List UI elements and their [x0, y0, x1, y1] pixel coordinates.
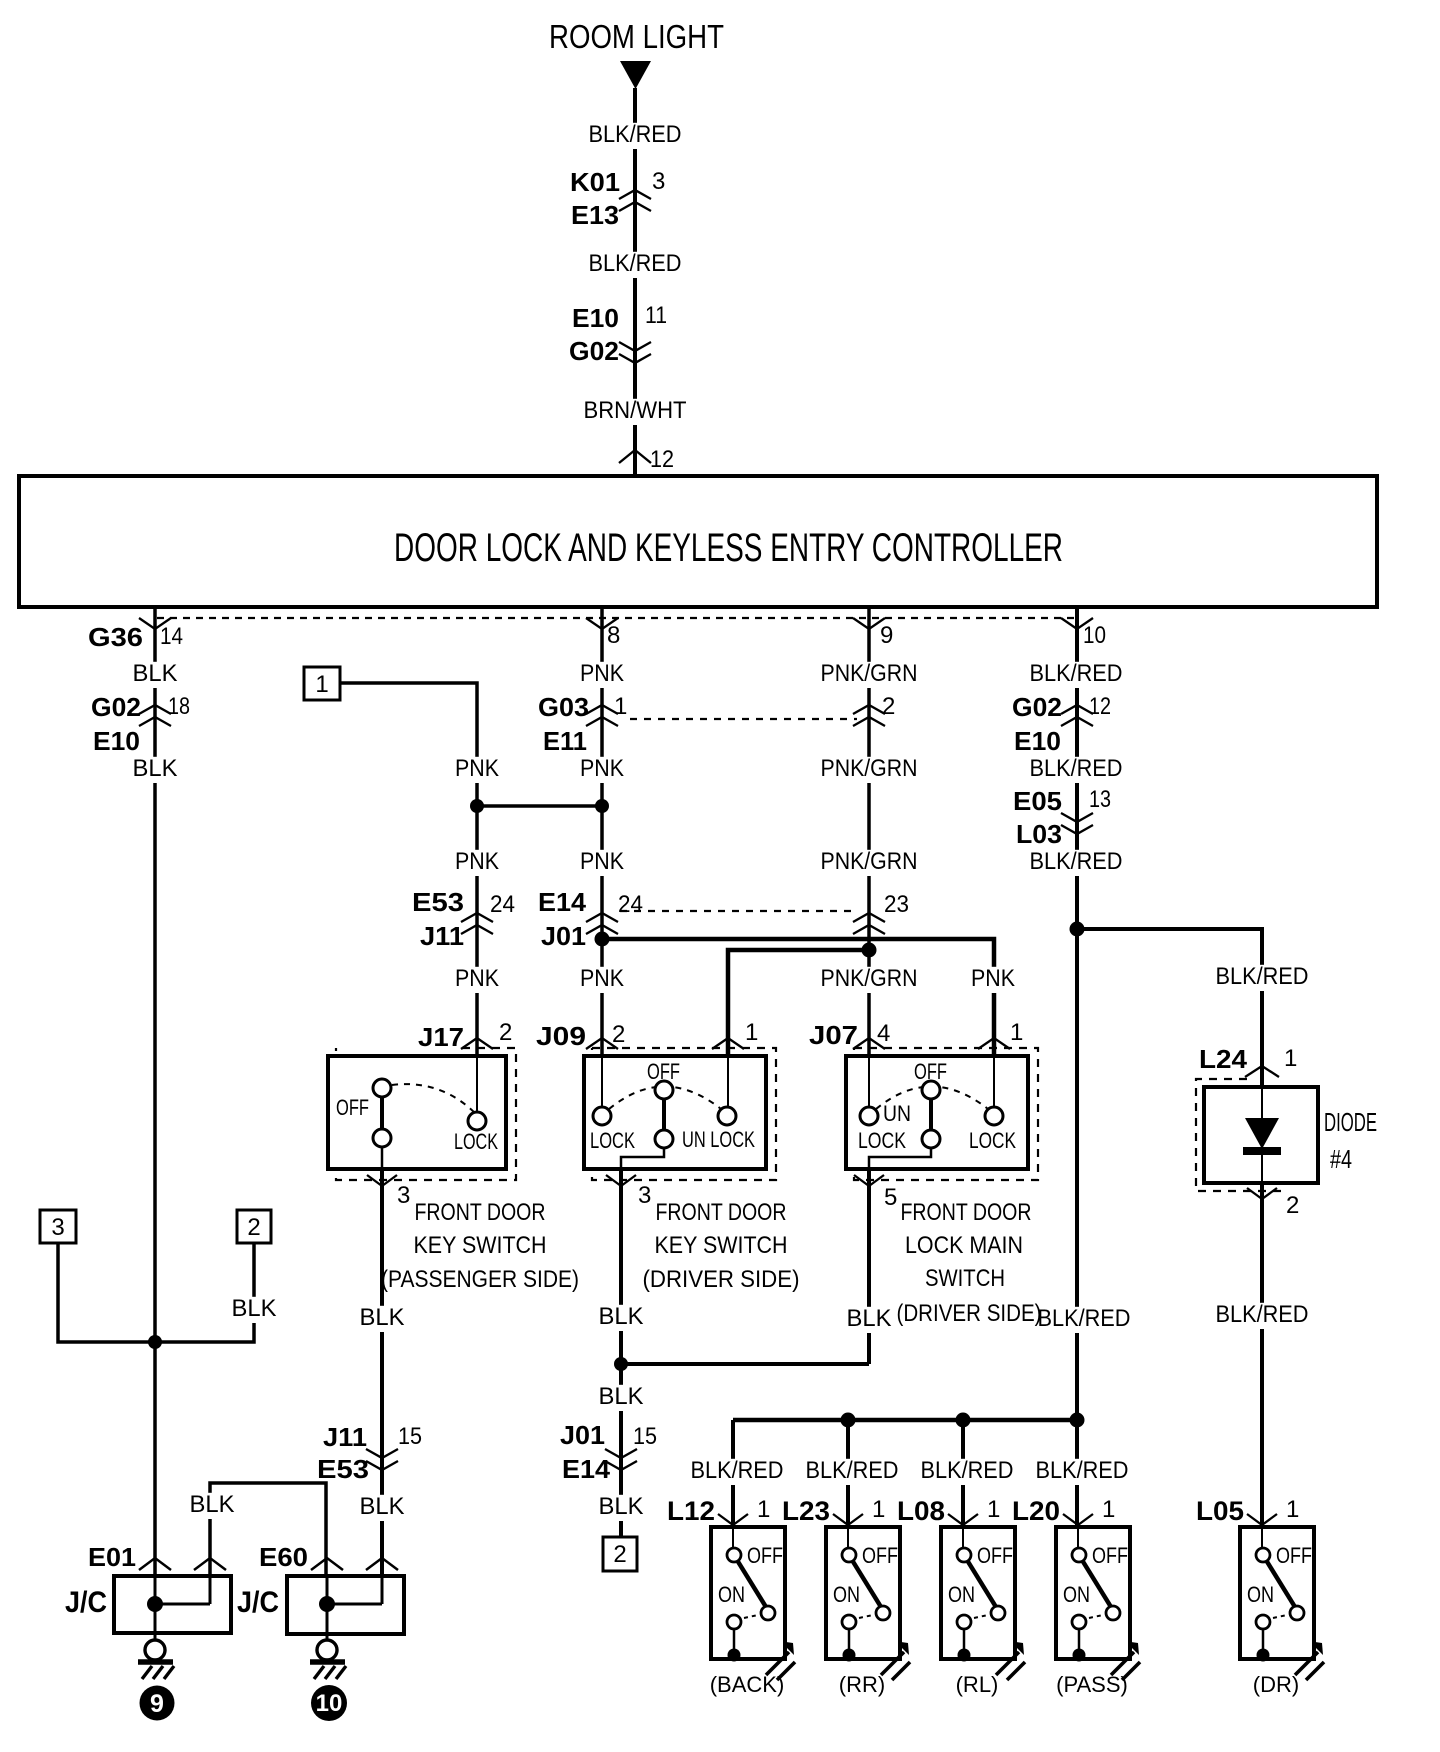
svg-text:2: 2	[613, 1541, 626, 1568]
svg-text:3: 3	[638, 1182, 651, 1209]
wire label PNK	[577, 850, 627, 876]
svg-text:L23: L23	[782, 1496, 830, 1526]
numbered connector box 2	[237, 1210, 271, 1243]
svg-text:PNK: PNK	[580, 848, 624, 875]
wire from box 3 to junction	[58, 1243, 155, 1342]
wire pin2 to LOCK contact	[476, 1056, 478, 1112]
wire label BRN/WHT	[581, 399, 690, 425]
contact OFF L08	[957, 1548, 971, 1562]
wire label BLK/RED	[1027, 757, 1126, 783]
J09 pin 3 chevron	[606, 1175, 636, 1186]
svg-text:BLK/RED: BLK/RED	[1038, 1305, 1131, 1332]
svg-text:1: 1	[1284, 1045, 1297, 1072]
svg-text:ON: ON	[1063, 1582, 1090, 1607]
switch lever J07	[929, 1099, 933, 1130]
svg-text:J07: J07	[809, 1020, 858, 1050]
wire BLK/RED drop L23	[846, 1420, 850, 1527]
svg-text:PNK/GRN: PNK/GRN	[821, 965, 918, 992]
svg-text:23: 23	[884, 891, 909, 918]
svg-text:BLK/RED: BLK/RED	[1216, 963, 1309, 990]
contact center J07	[922, 1130, 940, 1148]
wire BLK/RED pin 10 down to L20	[1075, 607, 1079, 1527]
svg-text:BLK: BLK	[133, 660, 178, 687]
svg-text:1: 1	[872, 1496, 885, 1523]
junction node J01 pin 24	[595, 932, 610, 947]
svg-text:BLK/RED: BLK/RED	[589, 250, 682, 277]
svg-text:BLK/RED: BLK/RED	[1030, 848, 1123, 875]
svg-text:BLK/RED: BLK/RED	[921, 1457, 1014, 1484]
svg-text:J01: J01	[560, 1420, 605, 1450]
wire BLK/RED branch to diode L24	[1077, 929, 1262, 1087]
svg-text:PNK: PNK	[455, 965, 499, 992]
dashed link L08	[974, 1615, 988, 1618]
wire BLK/RED bus to door switches	[733, 1418, 1077, 1423]
contact UNLOCK J07	[860, 1107, 878, 1125]
wire contact to pin 3	[381, 1147, 384, 1169]
svg-text:24: 24	[618, 891, 643, 918]
controller pin 12 chevron	[619, 450, 651, 463]
contact center J09	[655, 1130, 673, 1148]
svg-text:18: 18	[168, 693, 190, 720]
node badge 10	[311, 1685, 347, 1721]
controller pin 9 chevron	[853, 618, 885, 629]
wire label BLK	[130, 662, 181, 688]
svg-text:(BACK): (BACK)	[710, 1672, 785, 1697]
wire label PNK/GRN	[818, 662, 921, 688]
junction node PNK/GRN	[862, 943, 877, 958]
wire label BLK/RED	[918, 1459, 1017, 1485]
svg-text:(RR): (RR)	[839, 1672, 885, 1697]
svg-text:#4: #4	[1330, 1144, 1352, 1174]
contact OFF J07	[922, 1081, 940, 1099]
wire label BLK/RED	[586, 252, 685, 278]
svg-text:BLK: BLK	[599, 1493, 644, 1520]
svg-text:OFF: OFF	[914, 1059, 947, 1084]
svg-text:J01: J01	[541, 921, 586, 951]
svg-text:E10: E10	[1014, 726, 1061, 756]
switch lever L08	[967, 1560, 996, 1607]
svg-text:BLK: BLK	[847, 1305, 892, 1332]
switch lever L12	[737, 1560, 766, 1607]
svg-text:(DRIVER SIDE): (DRIVER SIDE)	[897, 1300, 1042, 1327]
numbered connector box 3	[40, 1210, 76, 1243]
wire BLK E01 to E60 link	[210, 1483, 326, 1576]
junction node PNK right	[595, 799, 609, 813]
junction node bus L08	[956, 1413, 971, 1428]
wire label PNK	[577, 757, 627, 783]
contact LOCK J09	[593, 1107, 611, 1125]
svg-text:PNK/GRN: PNK/GRN	[821, 755, 918, 782]
svg-text:E14: E14	[538, 887, 587, 917]
svg-text:E53: E53	[317, 1454, 369, 1484]
svg-text:15: 15	[633, 1423, 657, 1450]
diode #4 symbol	[1245, 1118, 1279, 1149]
svg-text:BLK: BLK	[599, 1303, 644, 1330]
numbered connector box 2 bottom	[603, 1537, 637, 1571]
svg-text:LOCK: LOCK	[454, 1129, 498, 1154]
wire J09 pin 1 to PNK/GRN net	[728, 950, 869, 1056]
wire label BLK	[596, 1495, 647, 1521]
svg-text:BLK/RED: BLK/RED	[1030, 660, 1123, 687]
svg-text:LOCK: LOCK	[858, 1128, 906, 1153]
wire label BLK/RED	[1213, 965, 1312, 991]
wire center contact to pin 5	[869, 1148, 931, 1169]
wire BLK J07 to J09 junction	[621, 1362, 869, 1366]
dashed throw arc J17	[392, 1084, 475, 1113]
svg-text:L20: L20	[1012, 1496, 1060, 1526]
J07 pin 5 chevron	[854, 1175, 884, 1186]
svg-text:ROOM LIGHT: ROOM LIGHT	[549, 18, 724, 55]
svg-text:E10: E10	[93, 726, 140, 756]
L24 pin 2 chevron	[1247, 1188, 1277, 1199]
junction node BLK	[614, 1357, 628, 1371]
contact UNLOCK J09	[718, 1107, 736, 1125]
room light feed arrow	[620, 61, 651, 89]
svg-text:PNK: PNK	[580, 965, 624, 992]
svg-text:OFF: OFF	[1092, 1543, 1128, 1568]
contact lever end L08	[991, 1606, 1005, 1620]
svg-text:L24: L24	[1199, 1044, 1248, 1074]
svg-text:9: 9	[150, 1690, 164, 1718]
svg-text:BLK: BLK	[599, 1383, 644, 1410]
svg-text:11: 11	[645, 302, 667, 329]
wire BLK/RED room light to controller pin 12	[633, 88, 637, 474]
wire label BLK	[357, 1306, 408, 1332]
junction node PNK left	[470, 799, 484, 813]
svg-text:1: 1	[315, 671, 328, 698]
svg-text:(RL): (RL)	[956, 1672, 999, 1697]
wire BLK J17 pin3 to E60	[380, 1169, 384, 1576]
dashed link L20	[1089, 1615, 1103, 1618]
ground E60	[317, 1640, 337, 1660]
wire label BLK/RED	[688, 1459, 787, 1485]
wire BLK J07 pin5 down	[867, 1169, 871, 1364]
contact lever end L20	[1106, 1606, 1120, 1620]
svg-text:2: 2	[1286, 1192, 1299, 1219]
contact OFF L23	[842, 1548, 856, 1562]
junction node BLK/RED to diode	[1070, 922, 1085, 937]
node badge 9	[140, 1686, 175, 1721]
svg-text:OFF: OFF	[862, 1543, 898, 1568]
svg-text:UN LOCK: UN LOCK	[682, 1127, 755, 1152]
contact lower J17	[373, 1129, 391, 1147]
svg-text:J/C: J/C	[237, 1586, 279, 1619]
svg-text:1: 1	[1286, 1496, 1299, 1523]
svg-text:2: 2	[499, 1019, 512, 1046]
svg-text:1: 1	[745, 1019, 758, 1046]
wire label PNK	[452, 967, 502, 993]
wire label PNK/GRN	[818, 967, 921, 993]
wire label PNK/GRN	[818, 757, 921, 783]
svg-text:J17: J17	[418, 1022, 464, 1052]
switch lever L05	[1266, 1560, 1295, 1607]
wire label BLK/RED	[1027, 850, 1126, 876]
controller pin 8 chevron	[586, 618, 618, 629]
switch lever L23	[852, 1560, 881, 1607]
contact ON L23	[842, 1615, 856, 1629]
body ground arrow L08	[996, 1652, 1025, 1680]
wire label BLK	[229, 1297, 280, 1323]
ground contact L12	[728, 1649, 741, 1662]
wire BLK/RED drop L08	[961, 1420, 965, 1527]
svg-text:PNK: PNK	[971, 965, 1015, 992]
svg-text:G36: G36	[88, 622, 143, 652]
switch J09 front door key switch driver side	[592, 1048, 776, 1180]
wire BLK from box 2 to junction	[155, 1243, 254, 1342]
svg-text:10: 10	[316, 1690, 343, 1717]
contact LOCK J07	[985, 1107, 1003, 1125]
wire label BLK/RED	[586, 123, 685, 149]
wire label BLK	[844, 1307, 895, 1333]
svg-text:LOCK MAIN: LOCK MAIN	[905, 1232, 1023, 1259]
svg-text:J11: J11	[323, 1422, 367, 1452]
wire BLK/RED drop L12	[731, 1420, 735, 1527]
contact OFF L20	[1072, 1548, 1086, 1562]
dashed link L23	[859, 1615, 873, 1618]
wire PNK pin 8 to J09 pin 2	[600, 607, 604, 1056]
svg-text:4: 4	[877, 1020, 890, 1047]
wire PNK J01-24 to J07 pin 1	[602, 939, 994, 1056]
svg-text:FRONT DOOR: FRONT DOOR	[656, 1199, 787, 1226]
dashed throw arc J09	[609, 1087, 721, 1110]
controller pin 14 chevron	[139, 618, 171, 629]
contact ON L12	[727, 1615, 741, 1629]
wire label BLK/RED	[1027, 662, 1126, 688]
svg-text:OFF: OFF	[1276, 1543, 1312, 1568]
ground E01	[145, 1640, 165, 1660]
svg-text:2: 2	[882, 693, 895, 720]
body ground arrow L23	[881, 1652, 910, 1680]
body ground arrow L12	[766, 1652, 795, 1680]
svg-text:J11: J11	[420, 921, 464, 951]
dashed housing L24	[1196, 1079, 1283, 1191]
svg-text:PNK/GRN: PNK/GRN	[821, 660, 918, 687]
switch lever L20	[1082, 1560, 1111, 1607]
dashed link pin1 to pin2	[630, 718, 857, 720]
contact OFF J09	[655, 1081, 673, 1099]
svg-text:PNK: PNK	[455, 848, 499, 875]
svg-text:BLK: BLK	[360, 1493, 405, 1520]
svg-text:1: 1	[757, 1496, 770, 1523]
svg-text:OFF: OFF	[336, 1095, 369, 1120]
svg-text:E53: E53	[412, 887, 464, 917]
svg-text:PNK: PNK	[580, 660, 624, 687]
svg-text:SWITCH: SWITCH	[925, 1265, 1005, 1292]
wire label PNK	[452, 757, 502, 783]
ground contact L08	[958, 1649, 971, 1662]
svg-text:L03: L03	[1016, 819, 1062, 849]
dashed connector line under controller	[157, 617, 1077, 619]
wire label BLK	[357, 1495, 408, 1521]
wire label PNK	[968, 967, 1018, 993]
svg-text:1: 1	[1010, 1019, 1023, 1046]
svg-text:E01: E01	[88, 1542, 136, 1572]
wire center contact to pin 3	[621, 1148, 664, 1169]
svg-text:FRONT DOOR: FRONT DOOR	[901, 1199, 1032, 1226]
body ground arrow L20	[1111, 1652, 1140, 1680]
svg-text:15: 15	[398, 1423, 422, 1450]
svg-text:10: 10	[1083, 622, 1106, 649]
wire label BLK/RED	[1035, 1307, 1134, 1333]
wire label BLK	[187, 1493, 238, 1519]
wire label BLK/RED	[803, 1459, 902, 1485]
svg-text:LOCK: LOCK	[969, 1128, 1016, 1153]
wire label PNK	[577, 662, 627, 688]
svg-text:L08: L08	[897, 1496, 945, 1526]
wire PNK/GRN pin 9 to J07 pin 4	[867, 607, 871, 1056]
contact lever end L23	[876, 1606, 890, 1620]
svg-text:(PASSENGER SIDE): (PASSENGER SIDE)	[381, 1266, 579, 1293]
svg-text:BLK/RED: BLK/RED	[1036, 1457, 1129, 1484]
svg-text:G02: G02	[1012, 692, 1062, 722]
svg-text:G02: G02	[569, 336, 619, 366]
svg-text:3: 3	[397, 1182, 410, 1209]
svg-text:ON: ON	[948, 1582, 975, 1607]
svg-text:BLK: BLK	[190, 1491, 235, 1518]
wire label BLK/RED	[1213, 1303, 1312, 1329]
svg-text:12: 12	[650, 446, 674, 473]
svg-text:8: 8	[607, 622, 620, 649]
svg-text:G02: G02	[91, 692, 141, 722]
svg-text:PNK/GRN: PNK/GRN	[821, 848, 918, 875]
body ground arrow L05	[1295, 1652, 1324, 1680]
wire label BLK	[596, 1305, 647, 1331]
svg-text:E14: E14	[562, 1454, 611, 1484]
svg-text:3: 3	[51, 1214, 64, 1241]
svg-text:14: 14	[160, 623, 183, 650]
svg-text:BLK/RED: BLK/RED	[1030, 755, 1123, 782]
contact LOCK J17	[468, 1112, 486, 1130]
svg-text:KEY SWITCH: KEY SWITCH	[655, 1232, 788, 1259]
svg-text:BLK: BLK	[360, 1304, 405, 1331]
ground contact L20	[1073, 1649, 1086, 1662]
contact lever end L05	[1290, 1606, 1304, 1620]
svg-text:PNK: PNK	[455, 755, 499, 782]
switch J17 front door key switch passenger side	[336, 1048, 516, 1180]
dashed link L05	[1273, 1615, 1287, 1618]
svg-text:(DR): (DR)	[1253, 1672, 1299, 1697]
wire label BLK	[130, 757, 181, 783]
svg-text:BLK: BLK	[133, 755, 178, 782]
switch J07 front door lock main switch driver side	[854, 1048, 1038, 1180]
wire PNK from box 1 to J17 pin 2	[340, 683, 477, 1056]
svg-text:J/C: J/C	[65, 1586, 107, 1619]
wire pin4 to UNLOCK contact	[868, 1056, 870, 1107]
svg-text:5: 5	[884, 1184, 897, 1211]
ground contact L23	[843, 1649, 856, 1662]
svg-text:LOCK: LOCK	[590, 1128, 635, 1153]
svg-text:OFF: OFF	[977, 1543, 1013, 1568]
wire label PNK/GRN	[818, 850, 921, 876]
wire pin1 to UNLOCK contact	[727, 1056, 729, 1108]
svg-text:KEY SWITCH: KEY SWITCH	[414, 1232, 547, 1259]
svg-text:L05: L05	[1196, 1496, 1244, 1526]
contact OFF L12	[727, 1548, 741, 1562]
wire BLK J09 pin3 down to box 2	[619, 1169, 623, 1537]
wire pin2 to LOCK contact	[601, 1056, 603, 1107]
svg-text:BRN/WHT: BRN/WHT	[584, 397, 687, 424]
controller box DOOR LOCK AND KEYLESS ENTRY CONTROLLER	[19, 476, 1377, 607]
numbered connector box 1	[304, 667, 340, 700]
ground contact L05	[1257, 1649, 1270, 1662]
wire through diode	[1261, 1087, 1263, 1183]
svg-text:ON: ON	[833, 1582, 860, 1607]
wire label PNK	[452, 850, 502, 876]
svg-text:9: 9	[880, 622, 893, 649]
svg-text:2: 2	[612, 1021, 625, 1048]
svg-text:1: 1	[1102, 1496, 1115, 1523]
svg-text:OFF: OFF	[747, 1543, 783, 1568]
svg-text:12: 12	[1089, 693, 1111, 720]
dashed link L12	[744, 1615, 758, 1618]
contact OFF L05	[1256, 1548, 1270, 1562]
svg-text:E05: E05	[1013, 786, 1062, 816]
svg-text:FRONT DOOR: FRONT DOOR	[415, 1199, 546, 1226]
wire label BLK/RED	[1033, 1459, 1132, 1485]
svg-text:OFF: OFF	[647, 1059, 680, 1084]
contact lever end L12	[761, 1606, 775, 1620]
svg-text:G03: G03	[538, 692, 589, 722]
svg-text:UN: UN	[883, 1101, 911, 1126]
junction wire PNK horizontal	[477, 804, 602, 808]
contact ON L20	[1072, 1615, 1086, 1629]
contact OFF upper J17	[373, 1079, 391, 1097]
svg-text:(DRIVER SIDE): (DRIVER SIDE)	[643, 1266, 800, 1293]
svg-text:1: 1	[614, 693, 627, 720]
junction node bus L20	[1070, 1413, 1085, 1428]
svg-text:BLK/RED: BLK/RED	[806, 1457, 899, 1484]
svg-text:BLK/RED: BLK/RED	[589, 121, 682, 148]
svg-text:J09: J09	[536, 1021, 586, 1051]
svg-text:3: 3	[652, 168, 665, 195]
svg-text:13: 13	[1089, 786, 1111, 813]
svg-text:E11: E11	[543, 726, 587, 756]
svg-text:E10: E10	[572, 303, 619, 333]
svg-text:2: 2	[247, 1214, 260, 1241]
svg-text:DIODE: DIODE	[1324, 1107, 1377, 1137]
svg-text:ON: ON	[718, 1582, 745, 1607]
junction node bus L23	[841, 1413, 856, 1428]
svg-text:BLK/RED: BLK/RED	[1216, 1301, 1309, 1328]
contact ON L05	[1256, 1615, 1270, 1629]
diode box	[1204, 1087, 1318, 1183]
svg-text:L12: L12	[667, 1496, 715, 1526]
svg-text:DOOR LOCK AND KEYLESS ENTRY CO: DOOR LOCK AND KEYLESS ENTRY CONTROLLER	[394, 526, 1063, 570]
wire label PNK	[577, 967, 627, 993]
wire label BLK	[596, 1385, 647, 1411]
wire BLK/RED diode to L05	[1260, 1183, 1264, 1527]
svg-text:1: 1	[987, 1496, 1000, 1523]
J17 pin 3 chevron	[367, 1175, 397, 1186]
dashed throw arc J07	[876, 1087, 988, 1110]
svg-text:PNK: PNK	[580, 755, 624, 782]
svg-text:(PASS): (PASS)	[1056, 1672, 1128, 1697]
svg-text:E13: E13	[571, 200, 619, 230]
dashed link pin24 to pin23	[620, 910, 856, 912]
switch lever J09	[662, 1099, 666, 1130]
svg-text:BLK/RED: BLK/RED	[691, 1457, 784, 1484]
wire BLK pin14 to E01	[153, 607, 157, 1576]
svg-text:K01: K01	[570, 167, 620, 197]
contact ON L08	[957, 1615, 971, 1629]
svg-text:BLK: BLK	[232, 1295, 277, 1322]
controller pin 10 chevron	[1061, 618, 1093, 629]
svg-text:E60: E60	[259, 1542, 308, 1572]
svg-text:24: 24	[490, 891, 515, 918]
switch lever J17	[380, 1097, 384, 1129]
junction node left BLK	[148, 1335, 162, 1349]
wire pin1 to LOCK contact	[993, 1056, 995, 1108]
